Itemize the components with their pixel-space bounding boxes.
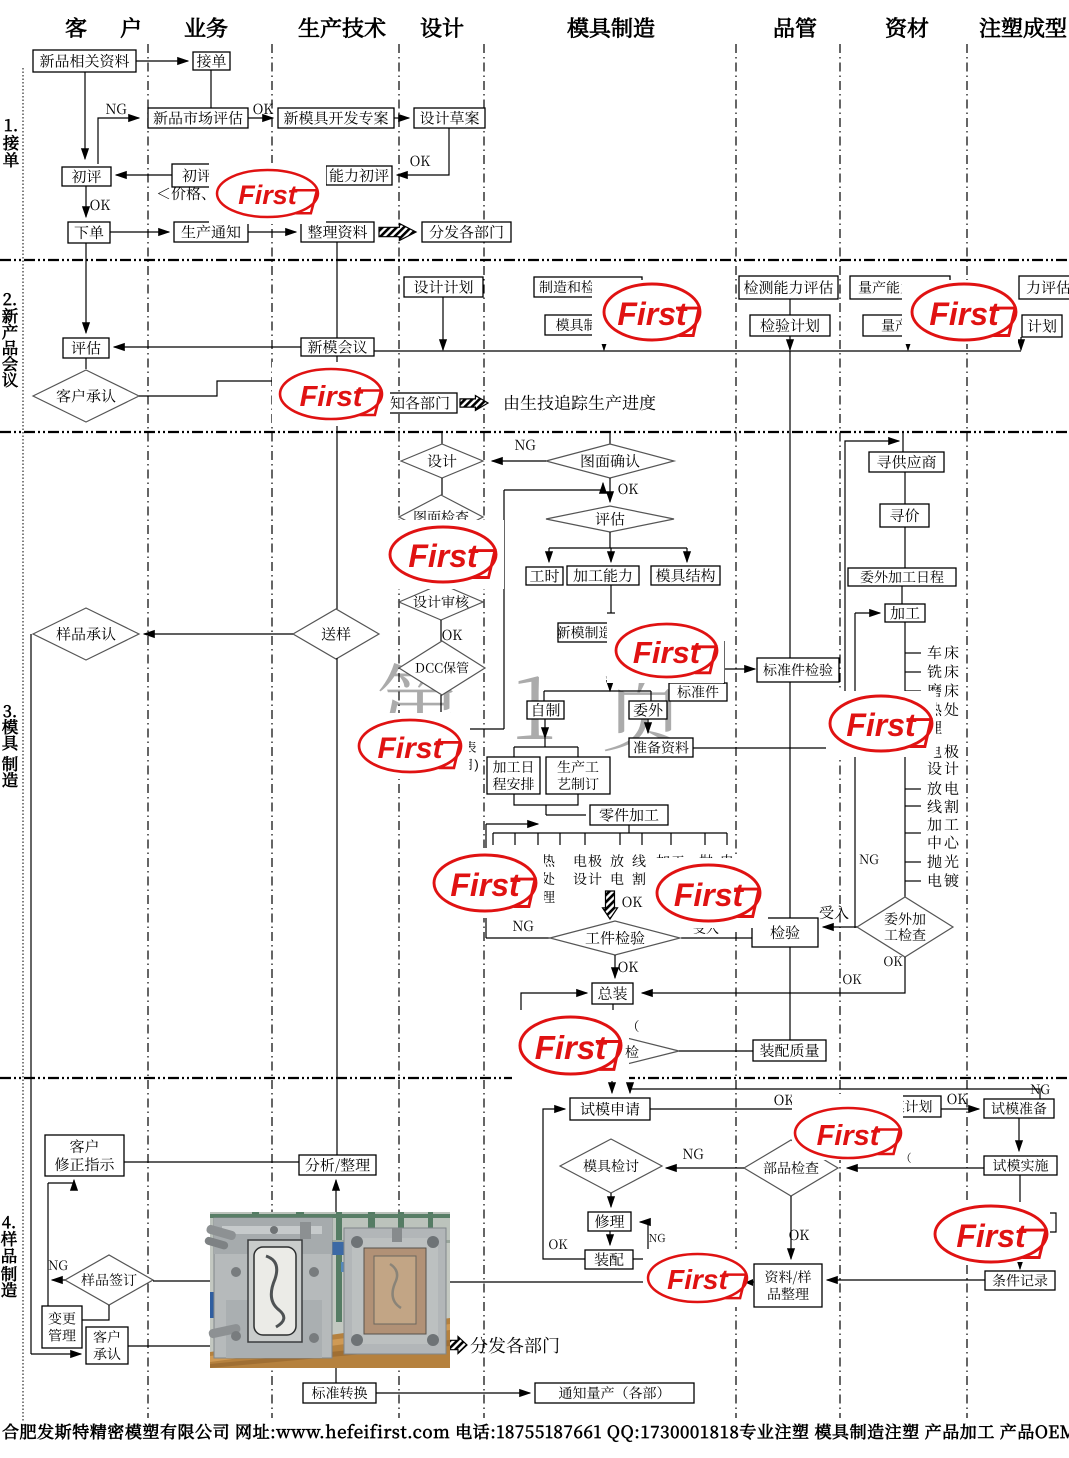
svg-text:户: 户 bbox=[120, 12, 142, 43]
hatched arrow distribute 2 bbox=[460, 396, 488, 411]
wire inspection plan down arrow bbox=[789, 336, 791, 350]
svg-text:委外: 委外 bbox=[633, 699, 663, 720]
wire implement down to condition bbox=[1019, 1175, 1021, 1269]
wire check OK down-left to assembly bbox=[642, 957, 905, 993]
box new mold meeting bbox=[301, 338, 374, 356]
box manufacture and inspection plan bbox=[534, 277, 642, 297]
svg-text:试模准备: 试模准备 bbox=[991, 1099, 1047, 1119]
box new mold manufacture bbox=[558, 623, 611, 642]
svg-text:资材: 资材 bbox=[885, 12, 929, 43]
svg-text:检验计划: 检验计划 bbox=[760, 315, 820, 336]
logo First 14 bbox=[929, 1202, 1049, 1262]
svg-text:NG: NG bbox=[512, 916, 534, 936]
svg-text:（: （ bbox=[901, 1150, 912, 1166]
wire mold plan down bbox=[603, 335, 605, 350]
wire review->DCC bbox=[440, 620, 442, 641]
svg-text:First: First bbox=[667, 1264, 729, 1295]
diamond mold review bbox=[560, 1139, 662, 1193]
wire implement->part check bbox=[847, 1167, 984, 1169]
svg-text:First: First bbox=[817, 1120, 881, 1152]
arrow NG loop into processing bbox=[855, 612, 880, 614]
diamond design review bbox=[399, 584, 483, 620]
wire songyang down to analyze bbox=[336, 658, 338, 1155]
svg-text:NG: NG bbox=[514, 435, 536, 455]
svg-text:生产技术: 生产技术 bbox=[298, 12, 386, 43]
section separator y=1078 bbox=[0, 1077, 1069, 1079]
svg-text:工时: 工时 bbox=[529, 565, 559, 586]
svg-text:NG: NG bbox=[48, 1255, 68, 1274]
box mass production ability eval bbox=[850, 276, 950, 299]
svg-text:First: First bbox=[408, 538, 479, 574]
svg-text:First: First bbox=[929, 296, 1000, 332]
NG loop assembly bbox=[521, 993, 587, 1051]
wire assembly down to pin check bbox=[612, 1004, 614, 1035]
box trial preparation bbox=[984, 1099, 1054, 1118]
box mold structure bbox=[651, 566, 720, 585]
arrow up into correction bbox=[73, 1180, 75, 1183]
diamond sample approval bbox=[33, 608, 139, 660]
box customer approval 2 bbox=[86, 1327, 128, 1364]
svg-text:模具制造: 模具制造 bbox=[567, 12, 655, 43]
svg-text:First: First bbox=[956, 1218, 1027, 1254]
svg-text:OK: OK bbox=[774, 1090, 795, 1110]
svg-text:品管: 品管 bbox=[773, 12, 817, 43]
svg-text:First: First bbox=[617, 296, 688, 332]
svg-text:标准转换: 标准转换 bbox=[312, 1383, 368, 1403]
svg-text:通知量产（各部）: 通知量产（各部） bbox=[559, 1383, 671, 1403]
svg-text:＜价格、: ＜价格、 bbox=[156, 183, 216, 204]
svg-text:标准件检验: 标准件检验 bbox=[763, 660, 833, 680]
svg-text:总装: 总装 bbox=[597, 983, 627, 1004]
wire DCC down bbox=[440, 695, 442, 712]
svg-text:设计: 设计 bbox=[427, 450, 457, 471]
svg-text:准备资料: 准备资料 bbox=[633, 738, 689, 758]
arrow part->mold review bbox=[666, 1167, 744, 1169]
arrow chuping2->chuping1 bbox=[116, 174, 172, 176]
box organize data bbox=[301, 222, 374, 242]
svg-text:NG: NG bbox=[1030, 1079, 1050, 1098]
box repair bbox=[588, 1212, 631, 1231]
photo of injection molds bbox=[204, 1212, 450, 1368]
arrow condition->organize bbox=[827, 1279, 985, 1281]
svg-text:设计: 设计 bbox=[420, 12, 464, 43]
svg-text:放: 放 bbox=[610, 851, 624, 871]
svg-text:NG: NG bbox=[649, 1230, 667, 1246]
diamond drawing confirm bbox=[546, 444, 674, 478]
svg-text:工件检验: 工件检验 bbox=[585, 927, 645, 948]
box new product data bbox=[33, 50, 136, 72]
box find supplier bbox=[869, 452, 944, 472]
wire to songyang diamond bbox=[336, 432, 338, 609]
hatched arrow distribute 1 bbox=[379, 224, 416, 241]
svg-text:新品市场评估: 新品市场评估 bbox=[153, 107, 243, 128]
arrow meeting->pinggu bbox=[114, 346, 301, 348]
wire into design diamond top bbox=[441, 432, 443, 444]
svg-text:试模申请: 试模申请 bbox=[580, 1098, 640, 1119]
section separator y=260 bbox=[0, 259, 1069, 261]
svg-text:OK: OK bbox=[548, 1234, 568, 1253]
box standard parts inspection bbox=[757, 658, 839, 682]
svg-text:First: First bbox=[238, 180, 298, 210]
svg-text:部品检查: 部品检查 bbox=[763, 1158, 819, 1178]
box data sample organize bbox=[754, 1264, 822, 1307]
NG return line from trial prep bbox=[630, 1089, 1040, 1099]
svg-text:管理: 管理 bbox=[48, 1326, 76, 1346]
logo First 4 bbox=[902, 280, 1018, 344]
process list ticks bbox=[905, 652, 921, 654]
box final assembly bbox=[592, 983, 633, 1004]
arrow prep->implement bbox=[1018, 1118, 1020, 1151]
svg-text:First: First bbox=[535, 1029, 609, 1066]
box processing ability bbox=[567, 566, 639, 585]
svg-text:First: First bbox=[450, 867, 521, 903]
wire approval right step bbox=[139, 381, 364, 403]
svg-text:承认: 承认 bbox=[93, 1344, 121, 1364]
wire QC pipe down bbox=[789, 351, 791, 1040]
box design plan bbox=[404, 277, 483, 297]
svg-text:样品签订: 样品签订 bbox=[81, 1270, 137, 1290]
wire sample sign down bbox=[82, 1305, 109, 1320]
box inspection plan bbox=[750, 315, 830, 336]
svg-text:新品相关资料: 新品相关资料 bbox=[39, 50, 129, 71]
logo First 6 bbox=[607, 618, 724, 683]
svg-text:客户承认: 客户承认 bbox=[56, 385, 116, 406]
svg-text:First: First bbox=[377, 732, 444, 765]
arrow plan->prep bbox=[941, 1108, 979, 1110]
diamond outsource processing check bbox=[857, 897, 953, 957]
diamond DCC keep bbox=[399, 641, 485, 695]
arrow review->repair bbox=[610, 1193, 612, 1207]
box ability chuping bbox=[326, 166, 392, 185]
box work hours bbox=[526, 567, 563, 585]
box production notice bbox=[174, 222, 248, 242]
svg-text:检: 检 bbox=[625, 1042, 639, 1062]
svg-text:NG: NG bbox=[105, 99, 127, 119]
arrow check->inspection box bbox=[823, 926, 857, 928]
box condition record bbox=[985, 1271, 1055, 1290]
NG loop assembly->repair bbox=[633, 1222, 648, 1259]
column line business/tech bbox=[271, 44, 273, 1418]
arrow data->jiedan bbox=[136, 60, 188, 62]
box self make bbox=[527, 701, 564, 719]
svg-text:注塑成型: 注塑成型 bbox=[979, 12, 1067, 43]
wire NG up bbox=[485, 824, 487, 938]
column line QC/material bbox=[839, 44, 841, 1418]
wire make/outsource bus bbox=[544, 690, 651, 692]
diamond part inspection bbox=[744, 1140, 838, 1196]
wire assembly loop to trial app bbox=[543, 1109, 585, 1259]
svg-text:割: 割 bbox=[632, 869, 646, 889]
svg-text:图面确认: 图面确认 bbox=[580, 450, 640, 471]
box standard conversion bbox=[303, 1383, 376, 1403]
wire new mold down to split bbox=[609, 642, 611, 691]
svg-text:工检查: 工检查 bbox=[884, 925, 926, 945]
wire design plan down bbox=[442, 297, 444, 350]
box pinggu evaluation bbox=[63, 338, 109, 358]
svg-text:装配: 装配 bbox=[594, 1249, 624, 1270]
svg-text:生产通知: 生产通知 bbox=[181, 221, 241, 242]
wire part check OK down bbox=[790, 1196, 792, 1259]
wire data down to chuping bbox=[84, 72, 86, 159]
column line material/molding bbox=[966, 44, 968, 1418]
box assembly 2 bbox=[585, 1250, 633, 1269]
arrow xiadan->production notice bbox=[110, 231, 169, 233]
comb bus bbox=[493, 832, 727, 834]
arrow standard->inspection bbox=[725, 668, 755, 670]
svg-text:分发各部门: 分发各部门 bbox=[470, 1332, 560, 1358]
logo First 5 bbox=[382, 520, 504, 589]
logo First 1 bbox=[209, 163, 326, 224]
svg-text:OK: OK bbox=[883, 951, 903, 970]
svg-text:OK: OK bbox=[410, 151, 431, 171]
arrow photo up to analyze bbox=[335, 1180, 337, 1212]
svg-text:设计草案: 设计草案 bbox=[419, 107, 479, 128]
diamond drawing check bbox=[399, 495, 483, 539]
wire draft down-left to ability eval bbox=[397, 128, 449, 175]
wire pinjian down to trial bbox=[611, 1067, 613, 1093]
svg-text:检验: 检验 bbox=[770, 922, 800, 943]
svg-text:修正指示: 修正指示 bbox=[54, 1154, 114, 1175]
box assembly quality bbox=[753, 1040, 826, 1061]
arrow pinggu->customer approve bbox=[85, 358, 87, 369]
svg-text:First: First bbox=[300, 381, 364, 413]
box self process schedule bbox=[487, 757, 540, 794]
box xiadan order bbox=[68, 222, 110, 243]
wire NG feedback up bbox=[98, 118, 139, 164]
svg-text:艺制订: 艺制订 bbox=[557, 774, 599, 794]
svg-text:中心: 中心 bbox=[927, 832, 961, 853]
box mold manufacturing plan bbox=[545, 315, 650, 335]
svg-text:标准件: 标准件 bbox=[677, 682, 719, 702]
svg-text:设计审核: 设计审核 bbox=[413, 592, 469, 612]
photo wooden table bbox=[210, 1318, 450, 1368]
svg-text:力评估: 力评估 bbox=[1026, 277, 1069, 298]
box customer correction instruction bbox=[45, 1135, 124, 1176]
box analyze organize bbox=[299, 1155, 376, 1175]
svg-text:抛光: 抛光 bbox=[927, 851, 961, 872]
wire split to two boxes bbox=[514, 746, 578, 748]
wire sample line to organize bbox=[153, 1280, 210, 1282]
arrow confirm->evaluate bbox=[609, 478, 611, 502]
wire jiedan down bbox=[210, 70, 212, 108]
logo First 2 bbox=[272, 362, 390, 426]
wire supplier->price bbox=[904, 472, 906, 504]
svg-text:受入: 受入 bbox=[819, 902, 849, 923]
wire feedback up into confirm bottom bbox=[504, 483, 603, 490]
wire bottom bracket bbox=[514, 794, 578, 805]
wire trial app right bbox=[650, 1108, 868, 1110]
logo First 13 bbox=[792, 1094, 903, 1160]
diamond evaluate 2 bbox=[546, 506, 674, 532]
wire meeting passthrough down bbox=[336, 356, 338, 432]
logo First 10 bbox=[826, 691, 936, 757]
box new mold development proposal bbox=[278, 108, 394, 128]
wire price->schedule bbox=[904, 527, 906, 568]
hatched arrow distribute 3 bbox=[447, 1337, 467, 1354]
svg-text:极: 极 bbox=[588, 851, 602, 871]
wire NG vertical change mgmt bbox=[47, 1183, 49, 1306]
box chuping2 business bbox=[172, 164, 222, 187]
arrow outsource->prepare data bbox=[647, 719, 649, 733]
arrow workpiece->assembly bbox=[614, 955, 616, 978]
arrow chuping1->xiadan bbox=[85, 186, 87, 217]
arrow split mid bbox=[610, 548, 612, 562]
box notify mass production bbox=[535, 1383, 694, 1403]
box molding ability eval (cut) bbox=[1019, 276, 1069, 299]
box prepare data bbox=[629, 738, 693, 757]
wire split bus bbox=[549, 547, 687, 549]
svg-text:程安排: 程安排 bbox=[493, 774, 535, 794]
svg-text:NG: NG bbox=[859, 849, 879, 868]
wire design down to drawing check bbox=[441, 478, 443, 495]
svg-text:加工能力: 加工能力 bbox=[573, 565, 633, 586]
diamond sample sign bbox=[65, 1255, 153, 1305]
box parts processing bbox=[590, 805, 668, 825]
wire ability to chuping2 bbox=[222, 174, 326, 176]
arrow split left bbox=[548, 548, 550, 562]
wire ability down to new mold bbox=[610, 585, 612, 613]
wire schedule->processing bbox=[901, 586, 903, 604]
logo First 12 bbox=[643, 1249, 747, 1307]
wire prepare->supplier path bbox=[693, 441, 899, 748]
box distribute to departments bbox=[422, 222, 511, 242]
box mass production plan bbox=[863, 315, 955, 336]
box jiedan bbox=[193, 52, 230, 70]
column line design/mold bbox=[483, 44, 485, 1418]
box inspection jianyan bbox=[752, 918, 818, 947]
box market evaluation bbox=[148, 108, 248, 128]
svg-text:NG: NG bbox=[682, 1144, 704, 1164]
svg-text:品整理: 品整理 bbox=[767, 1284, 809, 1304]
svg-text:模具检讨: 模具检讨 bbox=[583, 1156, 639, 1176]
svg-text:条件记录: 条件记录 bbox=[992, 1271, 1048, 1291]
svg-text:OK: OK bbox=[947, 1089, 968, 1109]
svg-text:业务: 业务 bbox=[184, 12, 228, 43]
svg-text:初评: 初评 bbox=[71, 166, 101, 187]
svg-text:电: 电 bbox=[573, 851, 587, 871]
svg-text:零件加工: 零件加工 bbox=[599, 804, 659, 825]
arrow proposal->draft bbox=[394, 117, 409, 119]
wire approval right to distribute bbox=[128, 1345, 210, 1347]
column line tech/design bbox=[398, 44, 400, 1418]
svg-text:计: 计 bbox=[588, 869, 602, 889]
logo First 9 bbox=[649, 858, 768, 928]
wire into tumian queren top bbox=[609, 432, 611, 444]
box inquiry price bbox=[880, 504, 929, 527]
photo right mold half bbox=[344, 1228, 446, 1354]
box processing bbox=[885, 604, 925, 622]
svg-text:加工: 加工 bbox=[890, 602, 920, 623]
box trial plan bbox=[868, 1096, 941, 1117]
wire to self-make bbox=[543, 691, 545, 701]
svg-text:First: First bbox=[633, 635, 702, 670]
svg-text:由生技追踪生产进度: 由生技追踪生产进度 bbox=[503, 389, 656, 414]
svg-text:新模具开发专案: 新模具开发专案 bbox=[283, 107, 388, 128]
svg-text:下单: 下单 bbox=[74, 222, 104, 243]
svg-text:OK: OK bbox=[842, 969, 862, 988]
svg-text:OK: OK bbox=[90, 195, 111, 215]
column headers bbox=[65, 12, 1067, 43]
arrow repair->zhuangpei bbox=[609, 1231, 611, 1245]
diamond design bbox=[401, 444, 483, 478]
svg-text:寻供应商: 寻供应商 bbox=[876, 451, 936, 472]
box molding plan (cut) bbox=[1022, 315, 1062, 337]
svg-text:OK: OK bbox=[789, 1225, 810, 1245]
arrow market->proposal bbox=[248, 117, 273, 119]
svg-text:能力初评: 能力初评 bbox=[329, 165, 389, 186]
arrow convert->notify mass production bbox=[376, 1392, 530, 1394]
svg-text:OK: OK bbox=[618, 479, 639, 499]
arrow split right bbox=[686, 548, 688, 562]
svg-text:客: 客 bbox=[65, 12, 87, 43]
wire molding plan down arrow bbox=[1020, 337, 1022, 350]
svg-text:评估: 评估 bbox=[595, 508, 625, 529]
box notify departments bbox=[368, 393, 457, 413]
svg-text:新模制造: 新模制造 bbox=[557, 623, 613, 643]
box chuping1 customer bbox=[62, 167, 111, 186]
wire pinjian->assembly quality bbox=[679, 1050, 753, 1052]
NG loop from workpiece check bbox=[486, 937, 550, 939]
svg-text:造: 造 bbox=[2, 767, 19, 791]
wire photo down to standard convert bbox=[335, 1368, 337, 1383]
wire feedback vertical bbox=[503, 490, 505, 729]
svg-text:First: First bbox=[674, 877, 745, 913]
box outsource bbox=[629, 701, 667, 719]
diamond send sample bbox=[293, 609, 379, 659]
svg-text:送样: 送样 bbox=[321, 623, 351, 644]
svg-text:分析/整理: 分析/整理 bbox=[305, 1154, 370, 1175]
wire xiadan down to pinggu bbox=[85, 243, 87, 333]
svg-text:装配质量: 装配质量 bbox=[759, 1040, 819, 1061]
svg-text:设计: 设计 bbox=[927, 758, 961, 779]
wire organize data down (to songyang) bbox=[336, 242, 338, 338]
svg-text:造: 造 bbox=[1, 1277, 18, 1301]
box inspection ability evaluation bbox=[739, 276, 838, 299]
photo left mold half bbox=[214, 1218, 332, 1358]
wire supplier entry bbox=[902, 433, 904, 452]
logo First 8 bbox=[426, 848, 544, 918]
box trial application bbox=[570, 1098, 650, 1120]
diamond pinjian bbox=[551, 1035, 679, 1067]
bracket fragment bbox=[1050, 1213, 1056, 1232]
svg-text:寻价: 寻价 bbox=[889, 505, 919, 526]
svg-text:试模实施: 试模实施 bbox=[993, 1156, 1049, 1176]
svg-text:OK: OK bbox=[618, 957, 639, 977]
box design draft bbox=[414, 108, 485, 128]
svg-text:线: 线 bbox=[632, 851, 646, 871]
wire mass plan down arrow bbox=[907, 336, 909, 350]
svg-text:委外加工日程: 委外加工日程 bbox=[860, 567, 944, 587]
wire evaluate down split bbox=[609, 532, 611, 548]
svg-text:铣床: 铣床 bbox=[927, 661, 961, 682]
wire standard parts bracket bbox=[723, 641, 725, 684]
arrow songyang->sample approval bbox=[144, 633, 293, 635]
wire feedback horiz to DCC bbox=[470, 728, 504, 730]
svg-text:OK: OK bbox=[622, 892, 643, 912]
diamond customer approval bbox=[33, 370, 139, 422]
column line left dotted bbox=[22, 68, 24, 1421]
svg-text:自制: 自制 bbox=[530, 699, 560, 720]
wire from sample approval chain bbox=[30, 634, 32, 1354]
column line mold/QC bbox=[735, 44, 737, 1418]
wire inspect down bbox=[789, 299, 791, 315]
svg-text:评估: 评估 bbox=[71, 337, 101, 358]
arrow self-make down bbox=[544, 719, 546, 738]
svg-text:电镀: 电镀 bbox=[927, 870, 961, 891]
svg-text:单: 单 bbox=[3, 147, 20, 171]
svg-text:分发各部门: 分发各部门 bbox=[429, 221, 504, 242]
svg-text:OK: OK bbox=[253, 99, 274, 119]
